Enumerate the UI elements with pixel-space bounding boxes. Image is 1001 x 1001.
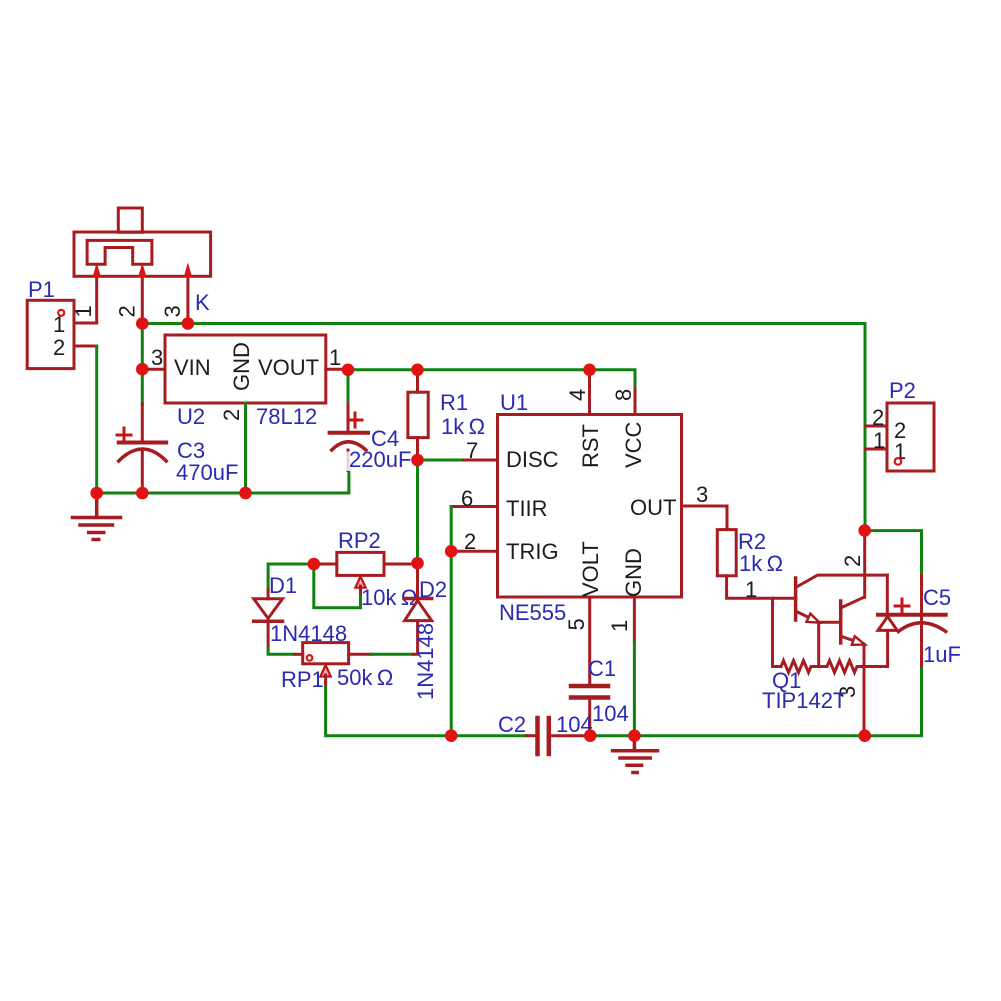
capacitor C5 plus (895, 599, 909, 613)
Q1 diode cathode to collector (886, 575, 889, 613)
node TRIG (445, 545, 458, 558)
wire RP1 to D2 (372, 653, 414, 656)
node RST (583, 364, 596, 377)
capacitor C5 plates (878, 613, 946, 617)
wire RP2 to D1 (268, 564, 314, 590)
svg-text:220uF: 220uF (349, 447, 411, 472)
switch K pin 1 arrow (92, 263, 101, 278)
svg-text:RP2: RP2 (338, 528, 381, 553)
Q1 row to diode (864, 630, 888, 666)
capacitor C4 plates (330, 431, 368, 435)
diode D1 bottom lead (267, 621, 270, 649)
diode D1 top lead (267, 590, 270, 599)
svg-text:1k Ω: 1k Ω (739, 551, 783, 576)
svg-text:1k Ω: 1k Ω (441, 414, 485, 439)
svg-text:C2: C2 (498, 712, 526, 737)
connector P1 (27, 300, 74, 368)
capacitor C1 plates (571, 684, 608, 689)
regulator U2 pin 3 stub (142, 368, 165, 371)
svg-text:U2: U2 (177, 404, 205, 429)
capacitor C3 plates (119, 441, 167, 445)
svg-text:1uF: 1uF (923, 642, 961, 667)
svg-text:2: 2 (53, 335, 65, 360)
U1 OUT pin 3 wire (682, 506, 728, 530)
node ground bottom (628, 729, 641, 742)
Q1 T2 base bar (839, 601, 843, 643)
capacitor C3 lead (141, 404, 144, 493)
svg-text:2: 2 (115, 305, 140, 317)
regulator U2 pin 2 wire (244, 403, 247, 493)
node R1 bottom / DISC (411, 454, 424, 467)
switch K pin 2 wire (141, 275, 144, 324)
svg-text:C1: C1 (588, 656, 616, 681)
svg-text:4: 4 (565, 389, 590, 401)
U1 TRIG pin stub (451, 550, 497, 553)
svg-text:7: 7 (466, 438, 478, 463)
potentiometer RP2 right stub (384, 563, 418, 566)
svg-text:P2: P2 (889, 378, 916, 403)
node ground left (90, 487, 103, 500)
potentiometer RP1 right stub (349, 653, 372, 656)
Q1 left resistor drop (773, 598, 782, 666)
svg-text:R1: R1 (440, 390, 468, 415)
svg-text:2: 2 (872, 405, 884, 430)
node switch pin 3 / K (182, 317, 195, 330)
connector P1 pin 2 stub (75, 345, 97, 348)
resistor R1 leads (416, 370, 419, 460)
wire P1 pin2 to ground (95, 346, 98, 493)
Q1 T1 base bar (794, 578, 798, 620)
potentiometer RP1 pin1 circle (307, 655, 313, 661)
svg-text:GND: GND (229, 342, 254, 391)
resistor R2 body (717, 530, 736, 576)
capacitor C4 leads (347, 404, 350, 471)
node U2 VOUT (342, 364, 355, 377)
potentiometer RP2 wiper arrow (355, 577, 365, 588)
svg-text:GND: GND (621, 548, 646, 597)
svg-text:P1: P1 (28, 277, 55, 302)
timer U1 box (498, 415, 682, 598)
node switch pin 2 (136, 317, 149, 330)
svg-text:1N4148: 1N4148 (413, 623, 438, 700)
wire RP2 wiper to left terminal (314, 564, 361, 608)
node C3 bottom (136, 487, 149, 500)
connector P2 pin 1 circle (895, 458, 902, 465)
switch K pin 3 wire (186, 275, 189, 324)
svg-text:1: 1 (607, 620, 632, 632)
svg-text:RP1: RP1 (281, 667, 324, 692)
capacitor C3 plus (117, 428, 131, 442)
svg-text:2: 2 (219, 409, 244, 421)
bottom rail left green (451, 734, 526, 737)
svg-text:50k Ω: 50k Ω (337, 665, 393, 690)
switch K body (74, 208, 211, 276)
node U2 VIN (136, 363, 149, 376)
regulator U2 box (165, 335, 326, 403)
resistor R1 body (408, 392, 428, 437)
Q1 internal resistor 2 (819, 661, 864, 673)
svg-text:TIIR: TIIR (506, 496, 548, 521)
Q1 collector pin 2 wire (863, 531, 866, 598)
node R1 top (411, 364, 424, 377)
wire R1 to RP2 vertical (416, 460, 419, 563)
svg-text:K: K (195, 290, 210, 315)
capacitor C2 plates (535, 718, 540, 754)
wire C4 top green (347, 370, 350, 404)
svg-text:3: 3 (696, 482, 708, 507)
Q1 T1 emitter (797, 612, 819, 623)
Q1 T1 emitter to T2 base (819, 622, 841, 666)
connector P2 pin 2 stub (865, 425, 887, 428)
svg-text:1: 1 (329, 345, 341, 370)
ground symbol left (73, 493, 121, 540)
svg-text:6: 6 (461, 486, 473, 511)
U1 VCC pin 8 wire (634, 388, 637, 415)
svg-text:3: 3 (151, 345, 163, 370)
connector P2 pin 1 stub (865, 448, 887, 451)
resistor R2 bottom lead / Q1 base wire (727, 576, 796, 598)
svg-text:TRIG: TRIG (506, 539, 559, 564)
svg-text:VCC: VCC (621, 421, 646, 468)
capacitor C2 left lead (526, 734, 535, 737)
bottom rail right green (590, 666, 921, 735)
svg-text:NE555: NE555 (499, 600, 566, 625)
node RP2 left (308, 558, 321, 571)
wire TIIR-TRIG vertical (450, 507, 453, 736)
svg-text:OUT: OUT (630, 495, 676, 520)
svg-text:TIP142T: TIP142T (762, 688, 846, 713)
node Q1 emitter bottom (858, 729, 871, 742)
diode D1 (254, 599, 283, 619)
svg-text:D1: D1 (269, 573, 297, 598)
node bottom rail left (445, 729, 458, 742)
diode D2 (404, 597, 432, 601)
connector P1 pin 1 circle (58, 310, 64, 316)
diode D2 bottom lead (413, 621, 418, 655)
Q1 T1 collector (797, 575, 888, 587)
transistor Q1 internals (773, 531, 898, 736)
Q1 T1 emitter arrow (807, 614, 820, 623)
Q1 internal diode (878, 617, 897, 631)
svg-text:1: 1 (745, 577, 757, 602)
svg-text:1: 1 (873, 428, 885, 453)
ground symbol bottom (613, 736, 658, 773)
Q1 T2 emitter (842, 637, 864, 645)
svg-text:VIN: VIN (174, 355, 211, 380)
capacitor C5 lead (920, 575, 923, 666)
capacitor C2 right lead (551, 734, 590, 737)
wire switch pin2 down (141, 324, 144, 405)
Q1 T2 collector (842, 597, 864, 607)
svg-text:3: 3 (160, 305, 185, 317)
potentiometer RP1 body (303, 643, 349, 664)
svg-text:104: 104 (592, 701, 629, 726)
svg-text:5: 5 (564, 618, 589, 630)
capacitor C4 value (346, 452, 412, 472)
connector P2 (887, 403, 934, 471)
Q1 emitter pin 3 wire (863, 644, 866, 735)
wire net VCC-in top rail (142, 324, 865, 531)
switch K pin 2 arrow (138, 263, 147, 278)
node C1 bottom (584, 729, 597, 742)
svg-text:RST: RST (578, 424, 603, 468)
svg-text:C5: C5 (923, 585, 951, 610)
capacitor C4 plus (348, 413, 362, 427)
switch K pin 1 wire (75, 275, 97, 323)
wire RP1 wiper to bottom rail (326, 688, 452, 736)
wire ground rail left (97, 471, 349, 494)
node U2 GND bottom (239, 487, 252, 500)
svg-text:DISC: DISC (506, 447, 559, 472)
svg-text:VOUT: VOUT (258, 355, 319, 380)
svg-text:D2: D2 (419, 577, 447, 602)
node Q1 collector (858, 524, 871, 537)
svg-text:78L12: 78L12 (256, 404, 317, 429)
U1 VOLT pin 5 wire (588, 597, 591, 685)
U1 TIIR pin stub (451, 505, 497, 508)
svg-text:2: 2 (840, 555, 865, 567)
svg-text:U1: U1 (500, 390, 528, 415)
U1 RST pin 4 wire (588, 370, 591, 415)
wire Q1 collector node to C5 (865, 531, 922, 575)
potentiometer RP2 left stub (314, 563, 337, 566)
Q1 T2 emitter arrow (852, 636, 865, 645)
svg-text:2: 2 (464, 529, 476, 554)
potentiometer RP1 wiper arrow (320, 665, 330, 677)
Q1 internal resistor 1 (781, 661, 819, 673)
svg-text:VOLT: VOLT (578, 541, 603, 597)
switch K pin 3 arrow (184, 263, 193, 278)
U1 GND pin 1 wire (633, 597, 636, 642)
node RP2 right / D2 (411, 557, 424, 570)
regulator U2 pin 1 stub (326, 368, 348, 371)
diode D2 top lead (416, 563, 419, 598)
capacitor C1 bottom lead (588, 700, 591, 736)
wire DISC net (418, 459, 464, 462)
svg-text:8: 8 (611, 389, 636, 401)
svg-text:470uF: 470uF (176, 460, 238, 485)
potentiometer RP2 body (337, 552, 384, 575)
U1 DISC pin stub (464, 459, 498, 462)
wire VOUT net (348, 370, 635, 388)
